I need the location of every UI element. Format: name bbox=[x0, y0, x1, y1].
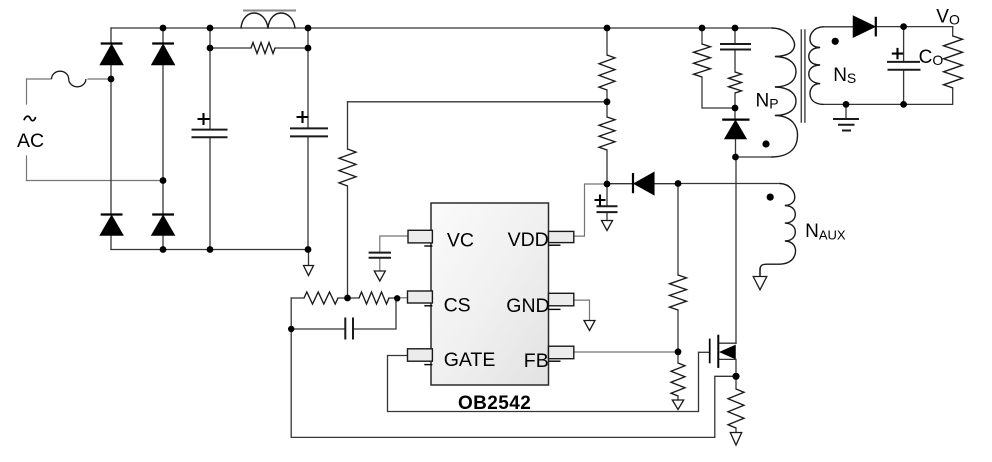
svg-text:AC: AC bbox=[17, 130, 44, 152]
svg-text:FB: FB bbox=[524, 350, 549, 372]
svg-text:VC: VC bbox=[447, 230, 474, 252]
svg-text:NS: NS bbox=[833, 65, 856, 86]
svg-text:VO: VO bbox=[936, 7, 960, 28]
svg-text:VDD: VDD bbox=[508, 229, 549, 251]
svg-text:NAUX: NAUX bbox=[805, 221, 846, 243]
svg-text:GATE: GATE bbox=[444, 349, 496, 371]
svg-text:OB2542: OB2542 bbox=[458, 393, 531, 414]
svg-text:GND: GND bbox=[506, 295, 549, 317]
svg-text:CO: CO bbox=[919, 47, 944, 68]
svg-text:CS: CS bbox=[444, 294, 471, 316]
svg-text:NP: NP bbox=[756, 91, 779, 112]
